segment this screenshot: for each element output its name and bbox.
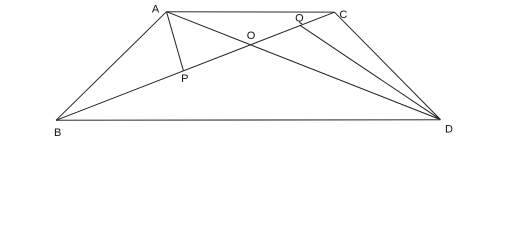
svg-text:O: O <box>247 30 256 42</box>
svg-text:C: C <box>339 9 347 21</box>
svg-text:B: B <box>54 127 61 139</box>
svg-text:A: A <box>152 3 160 15</box>
svg-text:D: D <box>445 123 453 135</box>
svg-text:Q: Q <box>295 13 304 25</box>
svg-text:P: P <box>181 73 188 85</box>
